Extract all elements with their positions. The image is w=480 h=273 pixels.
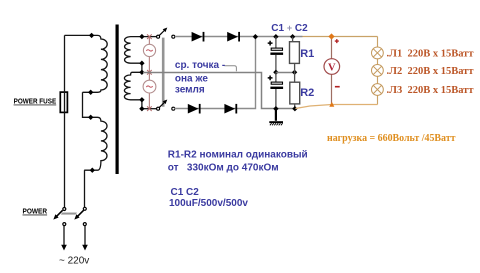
transformer secondary winding lower section (124, 72, 141, 100)
svg-text:V: V (328, 62, 336, 73)
node: top rail at C1 (273, 34, 278, 39)
voltmeter V (324, 59, 340, 75)
svg-text:от 330кОм до 470кОм: от 330кОм до 470кОм (168, 162, 279, 173)
wire: secondary bottom to switch (142, 108, 157, 110)
svg-text:.Л2 220В x 15Ватт: .Л2 220В x 15Ватт (387, 66, 475, 77)
transformer secondary winding upper section (125, 37, 142, 64)
node: voltmeter top junction (328, 33, 334, 39)
svg-text:.Л3 220В x 15Ватт: .Л3 220В x 15Ватт (387, 85, 475, 96)
node: secondary bottom (139, 106, 144, 111)
wire: primary bottom down to switch (84, 170, 86, 207)
switch S2 link bar (162, 38, 165, 107)
node: divider midpoint (292, 70, 297, 75)
fuse F1 (POWER FUSE) (60, 92, 67, 112)
AC source upper (143, 44, 155, 56)
node: top rail at R1 (290, 34, 295, 39)
lamp L3 (372, 84, 384, 96)
resistor R2 (290, 82, 300, 104)
transformer primary winding lower section (84, 117, 107, 170)
svg-text:нагрузка = 660Вольт /45Ватт: нагрузка = 660Вольт /45Ватт (327, 133, 456, 144)
switch S1 mechanical link bar (61, 212, 77, 215)
node: primary bottom junction (90, 168, 95, 173)
wire: primary left vertical with fuse (64, 35, 66, 207)
node: primary tap lower (88, 115, 93, 120)
wire: mains lead left with arrow (63, 226, 65, 245)
node: rectifier output join (253, 34, 258, 39)
wire: lamp chain vertical (377, 37, 379, 105)
red cross centre (147, 70, 152, 75)
wire: primary top horizontal (65, 34, 98, 36)
node: bottom rail at C2/ground (273, 106, 278, 111)
diode D4 (224, 104, 235, 114)
diode D3 (188, 104, 199, 114)
ground (275, 109, 277, 121)
red EMF line (148, 37, 150, 109)
svg-text:POWER FUSE: POWER FUSE (14, 99, 57, 106)
wire: top rail orange section (303, 36, 378, 38)
capacitor C2 (268, 76, 273, 81)
node: bottom rail at R2 (292, 106, 297, 111)
wire: cap midpoint to divider midpoint (276, 72, 295, 74)
wire: secondary bottom link (141, 100, 143, 109)
wire: top diode row (175, 36, 303, 38)
svg-text:R1: R1 (300, 48, 314, 60)
node: primary top junction (89, 33, 94, 38)
svg-text:она же: она же (175, 74, 208, 85)
transformer primary winding upper section (83, 35, 108, 92)
lamp L1 (372, 47, 384, 59)
lamp L2 (372, 65, 384, 77)
svg-text:100uF/500v/500v: 100uF/500v/500v (169, 198, 248, 209)
resistor R1 (292, 37, 294, 42)
wire: bottom diode row and riser (174, 37, 255, 109)
node: primary tap upper (88, 90, 93, 95)
node: secondary lower inner (139, 97, 144, 102)
AC source lower (143, 80, 156, 93)
transformer core (116, 25, 119, 175)
switch S2 bottom pole (157, 107, 160, 110)
diode D1 (192, 32, 203, 42)
svg-text:.Л1 220В x 15Ватт: .Л1 220В x 15Ватт (387, 48, 475, 59)
svg-text:C1 C2: C1 C2 (171, 187, 200, 198)
wire: mains lead right with arrow (84, 226, 86, 245)
wire: primary tap link (83, 92, 98, 117)
svg-text:R2: R2 (300, 87, 314, 99)
node: capacitor midpoint (273, 70, 278, 75)
node: voltmeter bottom junction (329, 102, 334, 107)
wire: voltmeter branch (331, 37, 333, 105)
node: secondary top (139, 34, 144, 39)
red cross bottom (147, 106, 152, 111)
wire: secondary top to switch (142, 36, 157, 38)
wire: label pointer (224, 66, 236, 72)
voltmeter plus (335, 39, 339, 43)
svg-text:POWER: POWER (23, 207, 48, 216)
svg-text:~ 220v: ~ 220v (59, 256, 89, 267)
capacitor C1 (275, 37, 277, 48)
wire: centre tap long run (143, 73, 295, 109)
svg-text:ср. точка -: ср. точка - (175, 60, 225, 71)
node: secondary upper inner (139, 61, 144, 66)
wire: secondary centre tap link (141, 63, 143, 72)
node: secondary centre tap (139, 70, 144, 75)
switch S2 top pole (157, 35, 160, 38)
svg-text:C1 + C2: C1 + C2 (271, 23, 308, 34)
svg-text:R1-R2 номинал одинаковый: R1-R2 номинал одинаковый (168, 149, 308, 160)
switch S1 right pole (83, 207, 86, 210)
wire: bottom orange return (295, 105, 377, 109)
voltmeter minus (335, 86, 340, 88)
svg-text:земля: земля (175, 85, 205, 96)
diode D2 (227, 32, 238, 42)
switch S1 left pole (63, 208, 66, 211)
red cross top (147, 34, 152, 39)
